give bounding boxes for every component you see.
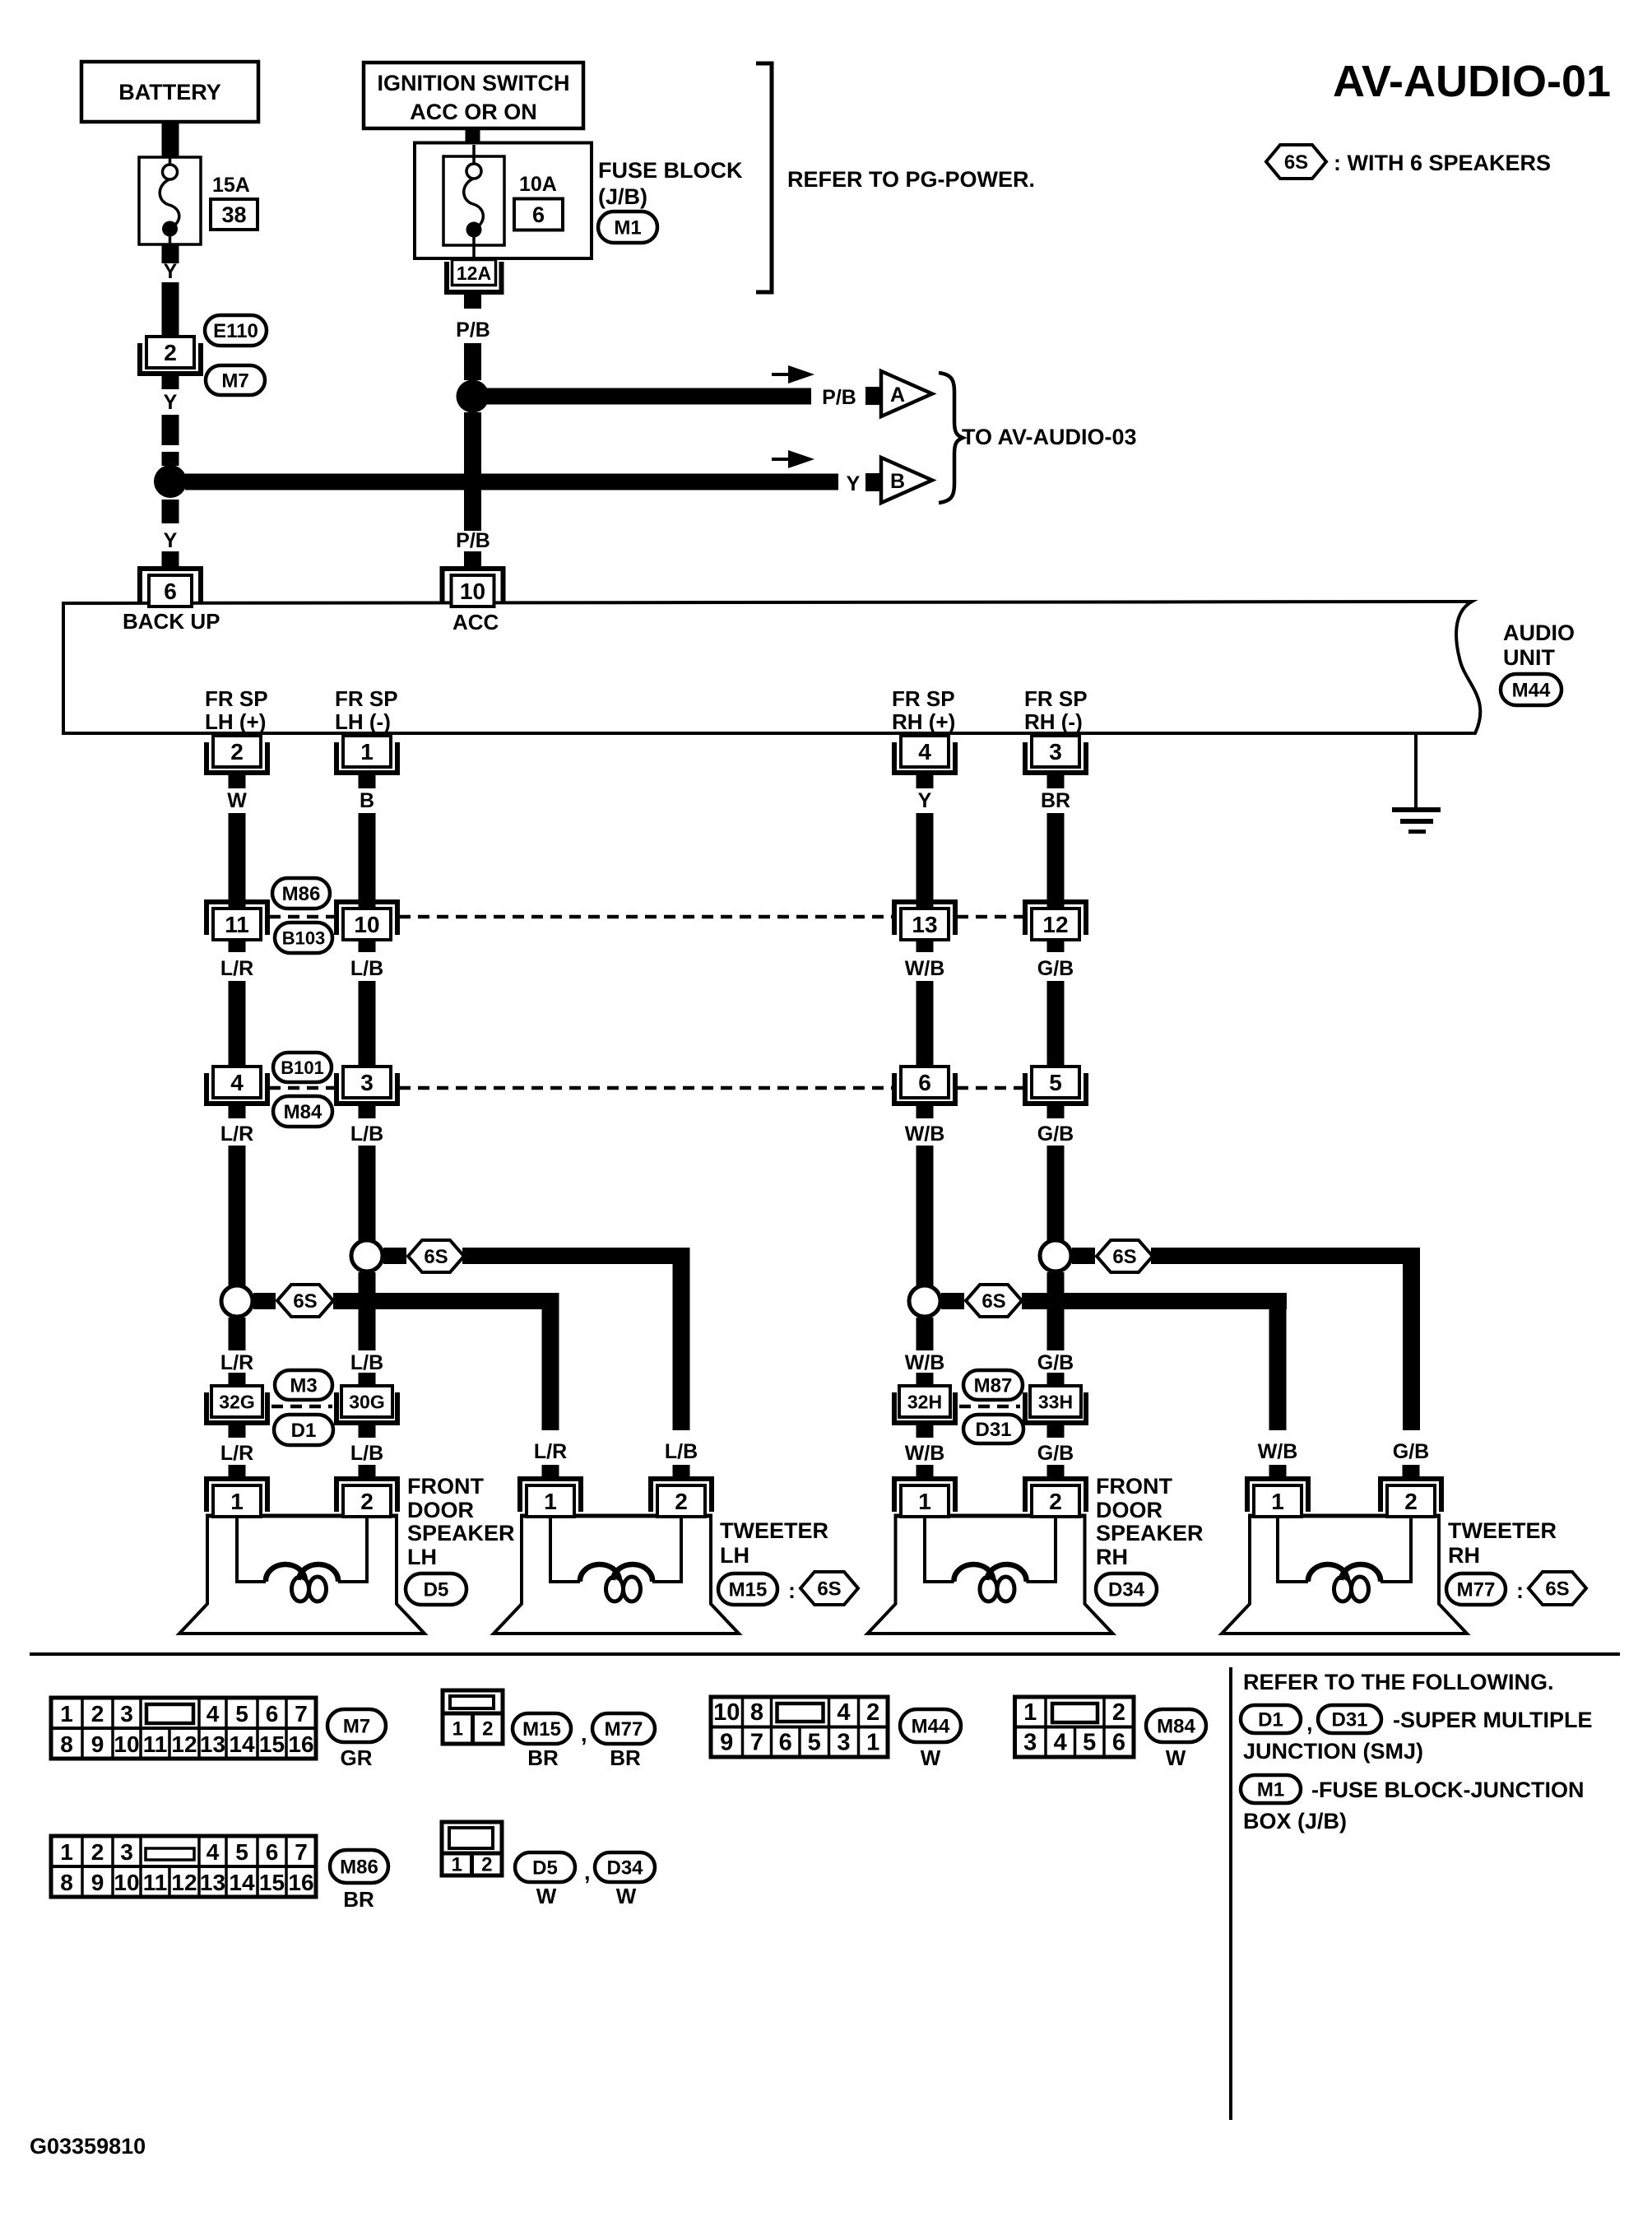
svg-text:SPEAKER: SPEAKER [1096,1521,1204,1545]
wire G/B down 2 [1047,981,1065,1067]
wire W/B tweeter stub [1269,1465,1287,1480]
wire L/B branch vertical [673,1248,690,1430]
svg-text:D34: D34 [606,1857,643,1880]
svg-text:B101: B101 [281,1057,324,1078]
wire P/B vertical below junction [464,412,481,531]
connector 4 B101/M84 [204,1067,270,1106]
svg-text:32G: 32G [219,1391,254,1412]
hexagon 6S L/R [277,1285,333,1317]
label L/R low [220,1442,253,1465]
svg-text:L/B: L/B [665,1440,698,1463]
hexagon 6S tweeter RH [1529,1572,1586,1605]
audio unit box [63,602,1480,733]
svg-text:,: , [1306,1711,1313,1736]
svg-text:10: 10 [354,912,379,937]
svg-text:TWEETER: TWEETER [1448,1518,1557,1543]
wire L/R stub to 32G [229,1373,246,1387]
fuse rating 15A [212,174,250,197]
label L/R tweeter [534,1440,567,1463]
connector oval D31 legend [1318,1705,1381,1733]
svg-text:M44: M44 [912,1716,950,1738]
svg-text:FR SP: FR SP [205,686,268,711]
svg-text:15: 15 [259,1731,285,1757]
svg-text:Y: Y [164,391,178,414]
svg-text:10: 10 [114,1870,139,1895]
svg-text:1: 1 [360,739,374,765]
label front door speaker LH [407,1474,515,1569]
svg-text:2: 2 [91,1701,104,1727]
svg-text:W/B: W/B [905,1351,945,1374]
legend 6S hexagon [1266,145,1551,179]
svg-text:2: 2 [1404,1489,1418,1514]
connector 11 M86/B103 [204,899,270,940]
svg-text:BACK UP: BACK UP [123,609,220,634]
svg-text:M87: M87 [974,1375,1013,1397]
connector grid M44 [711,1697,888,1757]
svg-text:M1: M1 [1257,1779,1284,1801]
svg-text:1: 1 [918,1489,931,1514]
label G/B mid [1037,1351,1074,1374]
wire P/B horizontal to A [487,388,811,405]
svg-text:RH (+): RH (+) [892,709,955,734]
bracket refer pg-power [756,63,772,292]
svg-text:G/B: G/B [1393,1440,1429,1463]
wire L/B branch horizontal [462,1248,690,1264]
connector oval M1 legend [1241,1775,1301,1803]
wire W/B below 32H [916,1424,934,1438]
svg-text:4: 4 [1054,1730,1067,1756]
svg-text:W/B: W/B [905,1122,945,1146]
wire W/B below circle [916,1318,934,1350]
battery box [81,62,258,122]
connector oval M3 [275,1370,332,1400]
svg-text:1: 1 [1023,1699,1037,1726]
wire W/B branch horizontal [1022,1293,1287,1309]
label L/R row1 [220,957,253,980]
connector oval M7 [206,365,265,395]
svg-text:D1: D1 [291,1420,317,1442]
wire G/B below 33H [1047,1424,1065,1438]
wire Y below junction [162,500,179,523]
label FR SP RH minus [1024,686,1088,734]
connector oval D34 legend [595,1852,655,1882]
label W/B tweeter [1258,1440,1298,1463]
connector 3 FR SP RH- [1023,736,1088,775]
connector oval D1 [274,1415,333,1445]
connector 1 tweeter LH [517,1476,583,1517]
wire L/B tweeter stub [673,1465,690,1480]
connector 1 speaker RH [892,1476,958,1517]
hexagon 6S W/B [966,1285,1022,1317]
wire P/B stub to connector 10 [464,551,481,567]
svg-text:JUNCTION (SMJ): JUNCTION (SMJ) [1243,1739,1423,1764]
svg-text:W/B: W/B [905,957,945,980]
wire L/B stub to 30G [359,1373,376,1387]
tweeter RH coil [1278,1514,1411,1601]
wire L/R branch horizontal [333,1293,559,1309]
junction circle L/B [351,1240,383,1271]
wire G/B stub to 33H [1047,1373,1065,1387]
svg-text:6S: 6S [1284,151,1308,174]
label W m84 [1166,1745,1186,1770]
wire Y down [916,813,934,907]
svg-text:6S: 6S [293,1290,317,1313]
svg-text:12A: 12A [457,263,491,284]
svg-text:1: 1 [866,1730,879,1756]
svg-text:6S: 6S [817,1578,841,1601]
svg-text:2: 2 [675,1489,688,1514]
connector oval M44 [1501,674,1562,705]
wire G/B below circle [1047,1272,1065,1350]
label G/B tweeter [1393,1440,1429,1463]
svg-text:M1: M1 [614,217,641,239]
svg-text:G03359810: G03359810 [30,2134,146,2159]
connector oval M86 [272,878,330,909]
label W/B row1 [905,957,945,980]
svg-text:BATTERY: BATTERY [118,80,221,105]
svg-text:M15: M15 [729,1579,768,1601]
svg-text:M44: M44 [1512,680,1551,702]
wire G/B stub row1 [1047,938,1065,952]
svg-text:LH: LH [720,1543,749,1568]
svg-text:4: 4 [837,1699,850,1726]
hexagon 6S tweeter LH [800,1572,858,1605]
svg-text:4: 4 [206,1839,220,1865]
label FR SP LH plus [205,686,268,734]
svg-text:LH (-): LH (-) [335,709,391,734]
svg-text:3: 3 [120,1839,133,1865]
hexagon 6S G/B [1097,1240,1153,1272]
wire W stub [229,774,246,788]
figure number G03359810 [30,2134,146,2159]
label Y 4 [847,472,861,495]
svg-text:1: 1 [452,1718,463,1741]
front door speaker LH body [179,1516,425,1634]
svg-text:TO AV-AUDIO-03: TO AV-AUDIO-03 [962,425,1137,449]
wire G/B down 3 [1047,1146,1065,1240]
connector oval M1 [598,211,657,243]
svg-text:B103: B103 [282,927,326,948]
svg-text:M84: M84 [284,1101,323,1123]
label G/B row1 [1037,957,1074,980]
wire L/B stub row1 [359,938,376,952]
svg-text:,: , [581,1722,587,1746]
label FR SP RH plus [892,686,955,734]
label L/R mid [220,1351,253,1374]
svg-text:12: 12 [171,1731,197,1757]
wire L/B stub row2 [359,1104,376,1118]
connector 6 back up [137,566,203,607]
svg-text:G/B: G/B [1037,1442,1074,1465]
label to AV-AUDIO-03 [962,425,1137,449]
connector 30G [334,1386,400,1425]
svg-text:6: 6 [532,202,545,227]
svg-text:12: 12 [1042,912,1068,937]
svg-text:1: 1 [452,1854,462,1876]
connector 32G [204,1386,270,1425]
svg-text:4: 4 [918,739,931,765]
wire L/R down 2 [229,981,246,1067]
label W m44 [921,1745,941,1770]
svg-text:M15: M15 [522,1718,561,1741]
svg-text:6S: 6S [981,1290,1005,1313]
svg-text:L/R: L/R [220,957,253,980]
connector oval M7 legend [327,1709,386,1742]
svg-text:IGNITION SWITCH: IGNITION SWITCH [378,71,570,95]
svg-text:W: W [616,1884,637,1908]
label GR [341,1745,373,1770]
svg-text:11: 11 [143,1731,168,1757]
svg-text:-SUPER MULTIPLE: -SUPER MULTIPLE [1393,1708,1593,1732]
wire Y dashes to junction [162,415,179,466]
svg-text:D31: D31 [1331,1709,1367,1731]
svg-text:4: 4 [230,1070,244,1095]
svg-text:13: 13 [200,1731,225,1757]
svg-text:TWEETER: TWEETER [720,1518,828,1543]
svg-text:RH (-): RH (-) [1024,709,1083,734]
wire W/B down 3 [916,1146,934,1285]
svg-text:6: 6 [1112,1730,1125,1756]
connector oval B101 [273,1053,332,1082]
connector 33H [1023,1386,1088,1425]
connector 2 speaker RH [1023,1476,1088,1517]
connector 32H [892,1386,958,1425]
svg-text:DOOR: DOOR [1096,1498,1162,1522]
wire W/B down 2 [916,981,934,1067]
label B [360,789,374,812]
fuse rating 10A [519,173,557,196]
connector oval M84 mid [273,1096,332,1127]
label tweeter RH [1448,1518,1557,1568]
svg-text:33H: 33H [1038,1391,1073,1412]
svg-text:RH: RH [1096,1545,1128,1569]
fuse 10A 6 [443,145,504,258]
label Y 2 [164,391,178,414]
label W/B row2 [905,1122,945,1146]
svg-text:3: 3 [120,1701,133,1727]
svg-text:3: 3 [1049,739,1062,765]
label Y 3 [164,529,178,552]
svg-text:2: 2 [164,340,177,365]
label W [227,789,247,812]
label P/B 2 [822,386,856,409]
svg-text:3: 3 [1023,1730,1037,1756]
svg-text:7: 7 [295,1839,308,1865]
svg-text:ACC OR ON: ACC OR ON [410,100,537,124]
svg-text:32H: 32H [907,1391,942,1412]
svg-text:P/B: P/B [822,386,856,409]
svg-text:6: 6 [266,1701,279,1727]
wire L/B below circle [359,1272,376,1350]
dashed line row2 c [957,1086,1023,1090]
svg-text:8: 8 [60,1731,73,1757]
wire W/B stub to 32H [916,1373,934,1387]
svg-text:2: 2 [1112,1699,1125,1726]
svg-text:9: 9 [91,1870,104,1895]
label L/B low [350,1442,383,1465]
connector 2pin M15/M77 [443,1690,503,1744]
label L/B row2 [350,1122,383,1146]
tweeter LH body [494,1516,739,1634]
svg-text:G/B: G/B [1037,1122,1074,1146]
wire L/R branch vertical [542,1293,559,1430]
svg-text:L/R: L/R [220,1122,253,1146]
connector 1 FR SP LH- [334,736,400,775]
svg-text:FR SP: FR SP [1024,686,1088,711]
svg-text:D5: D5 [532,1857,558,1880]
svg-text:BR: BR [343,1887,374,1912]
connector oval M44 legend [900,1709,961,1742]
connector 2pin D5/D34 [442,1822,502,1876]
label acc [452,610,499,634]
svg-text:6: 6 [164,579,177,604]
title AV-AUDIO-01 [1333,57,1611,106]
terminal square B [865,473,881,491]
svg-text:2: 2 [1049,1489,1062,1514]
svg-text:1: 1 [60,1839,73,1865]
label super multiple junction [1243,1708,1593,1764]
svg-text:E110: E110 [213,320,258,342]
svg-text:15A: 15A [212,174,250,197]
svg-text:10A: 10A [519,173,557,196]
svg-text:3: 3 [360,1070,374,1095]
connector oval M77 [1446,1573,1524,1605]
dashed line row1 c [957,915,1023,919]
svg-text::: : [788,1578,796,1603]
svg-text:1: 1 [1271,1489,1284,1514]
svg-text:38: 38 [221,202,246,227]
svg-text:B: B [890,470,905,493]
wire Y horizontal to B [185,474,838,490]
label fuse block junction box [1243,1778,1585,1834]
svg-text:M7: M7 [221,370,248,393]
svg-text:A: A [890,383,905,407]
connector grid M7 [51,1698,316,1759]
svg-text:14: 14 [229,1870,255,1895]
svg-text:D1: D1 [1258,1709,1283,1731]
label W/B mid [905,1351,945,1374]
triangle A to AV-AUDIO-03 [881,371,932,416]
svg-text:W: W [536,1884,557,1908]
svg-text:M3: M3 [290,1375,317,1397]
svg-text:BOX (J/B): BOX (J/B) [1243,1809,1347,1834]
ground symbol [1392,807,1441,834]
svg-text:: WITH 6 SPEAKERS: : WITH 6 SPEAKERS [1334,151,1551,175]
connector oval D5 [406,1573,466,1605]
svg-text:L/R: L/R [220,1351,253,1374]
label Y [164,260,178,283]
svg-text:Y: Y [164,260,178,283]
label BR m86 [343,1887,374,1912]
hexagon 6S L/B [408,1240,464,1272]
svg-text:D34: D34 [1108,1579,1145,1601]
svg-text:,: , [584,1860,591,1885]
svg-text:6S: 6S [1112,1246,1136,1268]
svg-text:W/B: W/B [905,1442,945,1465]
brace to AV-AUDIO-03 [939,373,963,503]
svg-text:4: 4 [206,1701,220,1727]
connector 1 tweeter RH [1245,1476,1311,1517]
svg-text:REFER TO THE FOLLOWING.: REFER TO THE FOLLOWING. [1243,1670,1554,1694]
wire L/B down 3 [359,1146,376,1240]
svg-text:BR: BR [1041,789,1070,812]
svg-text:15: 15 [259,1870,285,1895]
front door speaker RH body [868,1516,1113,1634]
connector oval E110 [205,315,267,346]
svg-text:FUSE BLOCK: FUSE BLOCK [598,158,743,183]
wire BR down [1047,813,1065,907]
svg-text:UNIT: UNIT [1503,645,1555,670]
connector 12 M86/B103 [1023,899,1088,940]
connector oval M15 legend [513,1713,587,1746]
fuse block J/B box [415,143,592,259]
svg-text:2: 2 [91,1839,104,1865]
front door speaker RH coil [925,1514,1056,1601]
ignition switch box [364,63,583,128]
svg-text:FR SP: FR SP [892,686,955,711]
wire L/R stub row1 [229,938,246,952]
label L/R row2 [220,1122,253,1146]
svg-text:6: 6 [918,1070,931,1095]
svg-text:12: 12 [171,1870,197,1895]
label tweeter LH [720,1518,828,1568]
svg-text:FRONT: FRONT [1096,1474,1172,1499]
wire L/R below circle [229,1318,246,1350]
label L/B tweeter [665,1440,698,1463]
wire L/B branch stub [383,1248,406,1264]
svg-text:L/R: L/R [534,1440,567,1463]
wire L/R stub row2 [229,1104,246,1118]
svg-text:6: 6 [779,1730,792,1756]
connector grid M84 [1015,1697,1135,1757]
junction circle G/B [1040,1240,1071,1271]
wire G/B branch horizontal [1151,1248,1420,1264]
svg-text:FRONT: FRONT [407,1474,484,1499]
svg-text:L/R: L/R [220,1442,253,1465]
wire P/B below 12A [464,295,481,309]
label audio unit [1503,620,1575,670]
wire L/B below 30G [359,1424,376,1438]
triangle B to AV-AUDIO-03 [881,458,932,503]
svg-text:13: 13 [912,912,937,937]
svg-text:2: 2 [230,739,244,765]
svg-text:W: W [1166,1745,1186,1770]
wire G/B stub row2 [1047,1104,1065,1118]
svg-text:SPEAKER: SPEAKER [407,1521,515,1545]
svg-text:FR SP: FR SP [335,686,398,711]
connector 3 B101/M84 [334,1067,400,1106]
svg-text:8: 8 [60,1870,73,1895]
svg-text:5: 5 [1083,1730,1096,1756]
svg-text:M86: M86 [282,883,321,905]
svg-text:5: 5 [235,1701,248,1727]
label back up [123,609,220,634]
svg-text:L/B: L/B [350,1442,383,1465]
connector oval M77 legend [592,1713,655,1744]
svg-text:L/B: L/B [350,1122,383,1146]
wire G/B tweeter stub [1403,1465,1420,1480]
connector 2 FR SP LH+ [204,736,270,775]
svg-text:D31: D31 [975,1419,1011,1441]
connector 2 (E110/M7) [137,337,203,376]
svg-text:3: 3 [837,1730,850,1756]
svg-text:16: 16 [288,1870,313,1895]
wire W/B stub spk [916,1465,934,1480]
svg-text::: : [1516,1578,1524,1603]
wire Y fuse to label [162,244,179,263]
wire L/B stub spk [359,1465,376,1480]
wire P/B to junction [464,343,481,380]
